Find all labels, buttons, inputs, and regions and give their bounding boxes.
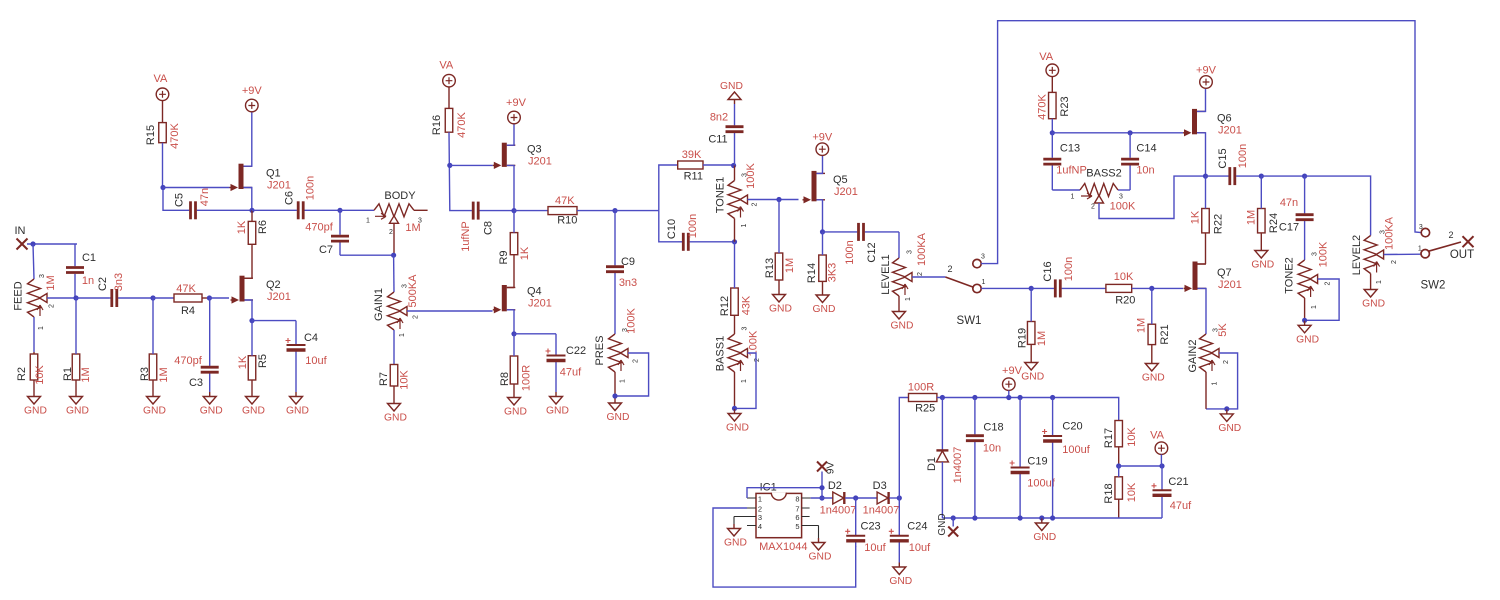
node 9V upper bbox=[819, 485, 824, 490]
svg-text:R11: R11 bbox=[684, 171, 703, 183]
svg-text:3: 3 bbox=[741, 326, 748, 330]
capacitor C16 100n bbox=[1031, 257, 1106, 298]
svg-text:GND: GND bbox=[937, 513, 948, 535]
resistor R11 39K bbox=[678, 149, 703, 183]
svg-text:1: 1 bbox=[1311, 305, 1318, 309]
ground IC1 pin3 bbox=[724, 517, 747, 549]
svg-text:C21: C21 bbox=[1168, 476, 1188, 488]
svg-text:2: 2 bbox=[751, 202, 758, 206]
node Q6 source / R22 / C15 bbox=[1203, 174, 1208, 179]
ground C22 bbox=[546, 392, 569, 417]
svg-text:43K: 43K bbox=[740, 295, 752, 315]
svg-text:IN: IN bbox=[15, 225, 26, 237]
capacitor C24 10uf bbox=[889, 498, 931, 563]
svg-text:1K: 1K bbox=[1189, 210, 1201, 224]
wire PRES bottom lead bbox=[614, 372, 616, 396]
node TONE2 bottom bbox=[1302, 318, 1307, 323]
wire R22 to Q7 drain bbox=[1205, 233, 1207, 264]
wire +9V rail bbox=[937, 398, 1119, 421]
wire Q2 drain lead bbox=[245, 277, 253, 279]
svg-text:GND: GND bbox=[546, 406, 569, 417]
svg-text:470K: 470K bbox=[1036, 93, 1048, 119]
wire node to C22 bbox=[514, 333, 556, 335]
power VA output bbox=[1150, 430, 1168, 467]
svg-text:C3: C3 bbox=[189, 377, 203, 389]
node gnd rail C19 bbox=[1018, 515, 1023, 520]
wire C14 to BASS2 terminal 3 bbox=[1118, 189, 1130, 191]
svg-text:BASS2: BASS2 bbox=[1086, 168, 1121, 180]
svg-text:3n3: 3n3 bbox=[619, 277, 637, 289]
svg-text:GND: GND bbox=[242, 406, 265, 417]
svg-text:C1: C1 bbox=[82, 252, 96, 264]
wire Q7 source to GAIN2 bbox=[1198, 288, 1207, 334]
svg-text:1: 1 bbox=[905, 297, 912, 301]
wire R11 to C11 node bbox=[703, 164, 734, 166]
svg-text:C19: C19 bbox=[1027, 456, 1047, 468]
potentiometer TONE1 100K bbox=[715, 162, 759, 241]
svg-text:C6: C6 bbox=[283, 191, 295, 205]
node BODY wiper / C7 / GAIN1 bbox=[391, 253, 396, 258]
svg-text:GND: GND bbox=[1142, 373, 1165, 384]
potentiometer GAIN1 500KA bbox=[373, 274, 420, 337]
capacitor C5 47n bbox=[173, 188, 216, 219]
svg-text:R19: R19 bbox=[1017, 328, 1029, 348]
ground IC1 pin5 bbox=[809, 526, 832, 563]
svg-text:GND: GND bbox=[724, 538, 747, 549]
resistor R13 1M bbox=[764, 200, 796, 291]
svg-text:1: 1 bbox=[741, 379, 748, 383]
svg-text:47n: 47n bbox=[1280, 197, 1298, 209]
ground C3 bbox=[200, 392, 223, 417]
node gnd rail GND symbol bbox=[1039, 515, 1044, 520]
resistor R7 10K bbox=[378, 365, 411, 400]
svg-text:3: 3 bbox=[1419, 224, 1423, 231]
svg-text:Q2: Q2 bbox=[266, 279, 281, 291]
svg-text:100n: 100n bbox=[304, 176, 316, 200]
wire LEVEL1 wiper to SW1 bbox=[912, 276, 945, 278]
svg-text:GND: GND bbox=[504, 407, 527, 418]
svg-text:J201: J201 bbox=[267, 180, 291, 192]
svg-text:10n: 10n bbox=[1136, 165, 1154, 177]
svg-text:2: 2 bbox=[48, 304, 55, 308]
svg-text:47uf: 47uf bbox=[1170, 500, 1192, 512]
svg-text:10K: 10K bbox=[1126, 427, 1138, 447]
svg-text:GND: GND bbox=[24, 406, 47, 417]
svg-text:1: 1 bbox=[619, 379, 626, 383]
wire BODY wiper down bbox=[393, 223, 395, 255]
wire Q6 drain to +9V bbox=[1197, 89, 1206, 111]
ground BASS1 bbox=[726, 409, 749, 434]
svg-text:D3: D3 bbox=[873, 480, 887, 492]
svg-text:500KA: 500KA bbox=[407, 274, 419, 308]
ground R8 bbox=[504, 393, 527, 418]
node SW1 / C16 / R19 bbox=[1029, 286, 1034, 291]
wire C13 to BASS2 terminal 1 bbox=[1052, 189, 1080, 191]
node R4/C3 junction bbox=[207, 295, 212, 300]
svg-text:10uf: 10uf bbox=[909, 542, 931, 554]
svg-text:R13: R13 bbox=[764, 258, 776, 278]
resistor R4 47K bbox=[174, 283, 209, 317]
connector 9V battery bbox=[817, 462, 836, 475]
resistor R5 1K bbox=[237, 321, 269, 392]
svg-text:100R: 100R bbox=[520, 365, 532, 391]
node Q2 source / R5 / C4 bbox=[249, 318, 254, 323]
svg-text:R23: R23 bbox=[1059, 96, 1071, 116]
wire gate node to Q6 bbox=[1052, 132, 1183, 134]
svg-text:C2: C2 bbox=[97, 277, 109, 291]
capacitor C8 1ufNP bbox=[460, 202, 514, 252]
node 9V lower / D2 anode bbox=[819, 495, 824, 500]
svg-text:4: 4 bbox=[758, 522, 762, 531]
svg-text:R4: R4 bbox=[181, 305, 195, 317]
svg-text:2: 2 bbox=[947, 264, 952, 274]
wire BASS1 wiper loop bbox=[735, 353, 757, 408]
svg-text:BASS1: BASS1 bbox=[714, 336, 726, 371]
svg-text:1n4007: 1n4007 bbox=[863, 505, 900, 517]
svg-text:C4: C4 bbox=[304, 332, 318, 344]
svg-text:39K: 39K bbox=[682, 149, 702, 161]
wire gate node to Q1 bbox=[163, 187, 230, 189]
svg-text:1: 1 bbox=[1376, 280, 1383, 284]
node R15/C5/Q1 gate bbox=[160, 185, 165, 190]
svg-text:+9V: +9V bbox=[1196, 65, 1217, 77]
capacitor C13 1ufNP bbox=[1043, 133, 1086, 190]
wire GAIN2 bottom lead bbox=[1205, 372, 1207, 409]
svg-text:8: 8 bbox=[795, 495, 799, 504]
ground R3 bbox=[143, 392, 166, 417]
wire Q7 drain lead bbox=[1198, 263, 1206, 265]
wire R6 to Q2 drain bbox=[251, 244, 253, 278]
resistor R21 1M bbox=[1135, 288, 1171, 359]
svg-text:GND: GND bbox=[769, 304, 792, 315]
node D3 / R25 / C24 bbox=[897, 495, 902, 500]
svg-text:2: 2 bbox=[412, 315, 419, 319]
capacitor C14 10n bbox=[1121, 133, 1156, 190]
resistor R1 1M bbox=[62, 298, 92, 392]
wire Q5 source to node bbox=[817, 200, 823, 232]
svg-text:10K: 10K bbox=[34, 365, 46, 385]
wire tee down to C10 bbox=[659, 211, 678, 242]
capacitor C3 470pf bbox=[174, 298, 218, 392]
svg-text:GND: GND bbox=[607, 412, 630, 423]
svg-text:D1: D1 bbox=[926, 457, 938, 471]
resistor R3 1M bbox=[139, 298, 170, 392]
svg-text:3: 3 bbox=[622, 328, 629, 332]
svg-text:470pf: 470pf bbox=[305, 222, 333, 234]
svg-text:3: 3 bbox=[758, 513, 762, 522]
power +9V Q5 bbox=[812, 132, 833, 156]
wire R15 to gate node bbox=[162, 143, 164, 188]
wire source node to C4 bbox=[252, 320, 296, 322]
svg-text:100K: 100K bbox=[1110, 201, 1136, 213]
node rail +9V bbox=[1006, 395, 1011, 400]
svg-text:2: 2 bbox=[917, 272, 924, 276]
svg-text:1n: 1n bbox=[82, 275, 94, 287]
svg-text:Q5: Q5 bbox=[833, 174, 848, 186]
wire Q6 source to node bbox=[1197, 133, 1206, 176]
switch SW2 bbox=[1418, 224, 1461, 292]
svg-text:3: 3 bbox=[401, 284, 408, 288]
svg-text:100KA: 100KA bbox=[916, 232, 928, 266]
potentiometer TONE2 100K bbox=[1284, 241, 1332, 309]
node GAIN2 ground bbox=[1224, 406, 1229, 411]
wire node to BODY pot bbox=[340, 209, 374, 211]
svg-text:2: 2 bbox=[632, 359, 639, 363]
svg-text:3: 3 bbox=[981, 254, 985, 261]
capacitor C4 10uf bbox=[286, 321, 328, 392]
ground above C11 bbox=[720, 81, 743, 104]
svg-text:D2: D2 bbox=[828, 480, 842, 492]
wire C5 to node bbox=[216, 209, 252, 211]
svg-text:1: 1 bbox=[1071, 194, 1075, 201]
wire Q1 drain to +9V bbox=[244, 112, 252, 166]
wire Q3 source to node bbox=[507, 165, 514, 210]
svg-text:100uf: 100uf bbox=[1062, 444, 1090, 456]
resistor R6 1K bbox=[236, 210, 269, 244]
svg-text:1n4007: 1n4007 bbox=[820, 505, 857, 517]
wire Q4 drain lead bbox=[507, 287, 514, 289]
node C1/R1 junction bbox=[73, 295, 78, 300]
connector OUT bbox=[1450, 236, 1474, 261]
node rail C20 bbox=[1050, 395, 1055, 400]
node R11 / C11 / TONE1 top bbox=[731, 163, 736, 168]
wire C12 to LEVEL1 bbox=[898, 232, 900, 258]
wire Q4 source to node bbox=[507, 310, 514, 334]
resistor R23 470K bbox=[1036, 77, 1071, 120]
ground R24 bbox=[1251, 246, 1274, 271]
capacitor C21 47uf bbox=[1152, 466, 1193, 518]
diode D2 1n4007 bbox=[820, 480, 857, 517]
node C14 top bbox=[1128, 130, 1133, 135]
capacitor C2 3n3 bbox=[97, 273, 151, 307]
wire R4 to Q2 gate bbox=[209, 297, 229, 299]
svg-text:R9: R9 bbox=[498, 250, 510, 264]
svg-text:GAIN1: GAIN1 bbox=[373, 288, 385, 321]
wire 9V to pin8 row bbox=[821, 472, 823, 499]
svg-text:R17: R17 bbox=[1103, 428, 1115, 448]
node gnd rail C18 bbox=[972, 515, 977, 520]
wire SW1 throw 3 to top bus bbox=[981, 21, 1421, 264]
wire R25 column bbox=[899, 398, 908, 499]
svg-text:R12: R12 bbox=[719, 296, 731, 316]
svg-text:Q7: Q7 bbox=[1217, 267, 1232, 279]
wire FEED top bbox=[33, 244, 34, 279]
svg-text:R1: R1 bbox=[62, 367, 74, 381]
node gnd rail X bbox=[951, 515, 956, 520]
svg-text:100uf: 100uf bbox=[1027, 478, 1055, 490]
svg-text:C9: C9 bbox=[621, 256, 635, 268]
svg-text:100n: 100n bbox=[687, 214, 699, 238]
transistor Q6 J201 bbox=[1183, 109, 1242, 137]
svg-text:R20: R20 bbox=[1115, 295, 1135, 307]
svg-text:C24: C24 bbox=[907, 521, 927, 533]
resistor R9 1K bbox=[498, 211, 531, 265]
svg-text:10K: 10K bbox=[1126, 482, 1138, 502]
svg-text:3: 3 bbox=[1311, 252, 1318, 256]
svg-text:C20: C20 bbox=[1062, 421, 1082, 433]
svg-text:R15: R15 bbox=[145, 125, 157, 145]
node VA / C21 bbox=[1159, 463, 1164, 468]
resistor R25 100R bbox=[908, 382, 937, 415]
node C10 / TONE1 bottom / R12 bbox=[732, 239, 737, 244]
wire GAIN1 wiper to Q4 gate bbox=[407, 310, 493, 312]
capacitor C6 100n bbox=[252, 176, 340, 220]
svg-text:1M: 1M bbox=[784, 258, 796, 273]
wire R20 to Q7 gate bbox=[1132, 287, 1183, 289]
resistor R8 100R bbox=[499, 334, 533, 393]
svg-text:FEED: FEED bbox=[12, 281, 24, 310]
node C2/R3 junction bbox=[150, 295, 155, 300]
svg-text:6: 6 bbox=[795, 513, 799, 522]
svg-text:PRES: PRES bbox=[594, 336, 606, 366]
wire GAIN1 bottom to R7 bbox=[393, 330, 395, 365]
resistor R24 1M bbox=[1245, 176, 1280, 246]
node R20 / R21 / Q7 gate bbox=[1149, 286, 1154, 291]
svg-text:GND: GND bbox=[813, 304, 836, 315]
wire C15 node to LEVEL2 bbox=[1305, 176, 1371, 235]
capacitor C12 100n bbox=[823, 223, 900, 265]
wire TONE2 bottom lead bbox=[1304, 298, 1306, 320]
node IN junction bbox=[30, 241, 35, 246]
node C17 top bbox=[1302, 174, 1307, 179]
svg-text:+9V: +9V bbox=[242, 85, 263, 97]
node rail D1 bbox=[940, 395, 945, 400]
connector GND X bbox=[937, 513, 958, 536]
wire tee up to R11 bbox=[659, 165, 678, 211]
svg-text:9V: 9V bbox=[825, 462, 836, 475]
node gnd rail C20 bbox=[1050, 515, 1055, 520]
node C15 / R24 bbox=[1259, 174, 1264, 179]
svg-text:GND: GND bbox=[200, 406, 223, 417]
svg-text:GND: GND bbox=[1362, 299, 1385, 310]
node PRES bottom bbox=[612, 393, 617, 398]
wire pin1 to 9V node bbox=[747, 488, 822, 498]
node Q5 source / R14 / C12 bbox=[820, 229, 825, 234]
node R23 / C13 / gate wire bbox=[1050, 130, 1055, 135]
wire TONE2 wiper loop bbox=[1305, 279, 1340, 320]
svg-text:1: 1 bbox=[758, 495, 762, 504]
wire gate node down to C5 bbox=[163, 188, 188, 211]
svg-text:100n: 100n bbox=[1237, 144, 1249, 168]
svg-text:100n: 100n bbox=[1063, 257, 1075, 281]
svg-text:1M: 1M bbox=[45, 275, 57, 290]
capacitor C9 3n3 bbox=[606, 211, 637, 334]
svg-text:1K: 1K bbox=[237, 355, 249, 369]
svg-text:3: 3 bbox=[1119, 194, 1123, 201]
svg-text:100K: 100K bbox=[1317, 241, 1329, 267]
svg-text:47n: 47n bbox=[199, 188, 211, 206]
wire Q1 source to node bbox=[244, 188, 252, 211]
wire VA node bbox=[1119, 465, 1162, 467]
wire C8 node to R10 bbox=[514, 210, 548, 212]
svg-text:GND: GND bbox=[1218, 423, 1241, 434]
node R10 / C9 bbox=[612, 208, 617, 213]
wire D3 to R25 node bbox=[889, 497, 899, 499]
svg-text:Q1: Q1 bbox=[266, 168, 281, 180]
power VA R23 bbox=[1039, 51, 1058, 77]
svg-text:1: 1 bbox=[366, 218, 370, 225]
svg-text:C22: C22 bbox=[566, 345, 586, 357]
svg-text:2: 2 bbox=[1223, 360, 1230, 364]
svg-text:1: 1 bbox=[741, 223, 748, 227]
svg-text:C11: C11 bbox=[708, 134, 727, 146]
ground R7 bbox=[384, 399, 407, 424]
svg-text:+9V: +9V bbox=[506, 97, 527, 109]
svg-text:47uf: 47uf bbox=[560, 367, 582, 379]
svg-text:J201: J201 bbox=[1218, 279, 1242, 291]
IC1 MAX1044 bbox=[734, 482, 819, 554]
wire R16 down to C8 line bbox=[449, 132, 471, 210]
power VA R16 bbox=[439, 60, 455, 87]
svg-text:C7: C7 bbox=[319, 244, 333, 256]
potentiometer BASS1 100K bbox=[714, 315, 761, 383]
wire C15 node to C17 bbox=[1261, 175, 1304, 177]
wire PRES wiper loop to bottom bbox=[615, 353, 649, 396]
transistor Q3 J201 bbox=[493, 143, 552, 169]
svg-text:R6: R6 bbox=[257, 220, 269, 234]
svg-text:R5: R5 bbox=[257, 354, 269, 368]
svg-text:3: 3 bbox=[418, 218, 422, 225]
svg-text:J201: J201 bbox=[1218, 125, 1242, 137]
capacitor C22 47uf bbox=[546, 334, 587, 392]
svg-text:R16: R16 bbox=[431, 115, 443, 135]
resistor R16 470K bbox=[431, 87, 468, 138]
svg-text:LEVEL2: LEVEL2 bbox=[1351, 235, 1363, 275]
svg-text:SW1: SW1 bbox=[957, 315, 982, 327]
resistor R10 47K bbox=[548, 195, 577, 227]
diode D3 1n4007 bbox=[863, 480, 900, 517]
svg-text:8n2: 8n2 bbox=[710, 112, 728, 124]
svg-text:1: 1 bbox=[1211, 381, 1218, 385]
svg-text:5: 5 bbox=[795, 522, 799, 531]
ground PRES bbox=[607, 399, 630, 424]
svg-text:47K: 47K bbox=[176, 283, 196, 295]
svg-text:TONE1: TONE1 bbox=[715, 177, 727, 213]
diode D1 1n4007 shunt bbox=[926, 398, 964, 519]
svg-text:1M: 1M bbox=[1135, 318, 1147, 333]
svg-text:R7: R7 bbox=[378, 372, 390, 386]
svg-text:470pf: 470pf bbox=[174, 355, 202, 367]
transistor Q1 J201 bbox=[230, 164, 291, 192]
svg-text:1: 1 bbox=[399, 333, 406, 337]
svg-text:100n: 100n bbox=[844, 240, 856, 264]
svg-text:VA: VA bbox=[1039, 51, 1054, 63]
svg-text:R25: R25 bbox=[915, 403, 935, 415]
capacitor C10 100n bbox=[666, 214, 734, 251]
node Q3 source / C8 / R9 / R10 bbox=[511, 208, 516, 213]
wire D2 to D3 bbox=[845, 497, 877, 499]
svg-text:GND: GND bbox=[720, 81, 743, 92]
svg-text:10K: 10K bbox=[1114, 271, 1134, 283]
ground rail bbox=[1033, 519, 1056, 544]
power VA R15 bbox=[153, 73, 168, 101]
node C6 / C7 / BODY bbox=[337, 208, 342, 213]
svg-text:R21: R21 bbox=[1159, 324, 1171, 344]
potentiometer GAIN2 5K bbox=[1187, 323, 1230, 386]
resistor R15 470K bbox=[145, 101, 181, 149]
wire gate node to Q3 bbox=[450, 164, 493, 166]
svg-text:3: 3 bbox=[1379, 230, 1386, 234]
svg-text:R22: R22 bbox=[1212, 214, 1224, 234]
potentiometer FEED 1M bbox=[12, 274, 56, 330]
resistor R19 1M bbox=[1017, 288, 1048, 358]
svg-text:1K: 1K bbox=[236, 220, 248, 234]
svg-text:2: 2 bbox=[1391, 260, 1398, 264]
svg-text:10n: 10n bbox=[983, 443, 1001, 455]
svg-text:R18: R18 bbox=[1103, 483, 1115, 503]
svg-text:GND: GND bbox=[891, 321, 914, 332]
capacitor C17 47n bbox=[1279, 176, 1314, 260]
